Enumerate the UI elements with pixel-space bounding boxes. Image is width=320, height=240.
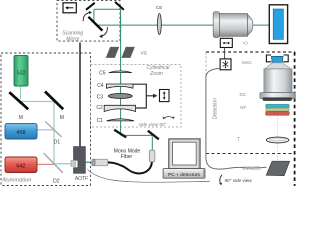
fold mirror lower-right	[148, 131, 159, 140]
svg-text:Mirror: Mirror	[66, 37, 79, 43]
sample vial body	[264, 69, 292, 93]
beam 458 to D1	[37, 129, 54, 131]
svg-text:NF: NF	[240, 105, 246, 110]
svg-text:IO: IO	[243, 40, 248, 45]
mirror M1	[9, 92, 28, 109]
svg-text:PC + detectors: PC + detectors	[168, 172, 200, 178]
scanning mirror dashed box	[57, 1, 120, 42]
laser 458	[5, 124, 37, 139]
filter stack khaki	[266, 108, 290, 111]
sample vial cap	[271, 56, 283, 62]
dichroic D2	[44, 153, 63, 173]
monitor	[169, 139, 200, 169]
alignment screen outer	[269, 5, 287, 44]
filter stack red	[266, 111, 290, 115]
sample holder clamp right	[283, 55, 288, 62]
illumination objective body	[220, 14, 248, 37]
beam 532 laser to mirror M1	[20, 86, 22, 100]
svg-text:Detection: Detection	[212, 98, 218, 119]
svg-text:458: 458	[16, 130, 25, 136]
svg-text:D2: D2	[53, 178, 60, 184]
sample vial shoulder	[265, 63, 292, 69]
svg-text:EMCCD: EMCCD	[242, 166, 261, 172]
detection dashed box top edge	[206, 51, 295, 53]
filter stack cyan	[266, 104, 290, 108]
beam M1 to M2	[20, 101, 55, 103]
sample vial base	[260, 93, 295, 99]
cylindrical zoom dashed box	[91, 65, 182, 128]
detection dashed box left edge	[205, 52, 207, 154]
beam scanning mirror to illumination objective	[96, 24, 214, 26]
svg-text:M: M	[60, 115, 64, 121]
svg-text:532: 532	[17, 71, 26, 77]
lens C3 (biconvex)	[108, 94, 132, 99]
fold mirror top-left	[86, 3, 95, 10]
beam fold mirror to fold mirror horizontal	[121, 134, 153, 136]
IO motion box	[220, 38, 232, 47]
PC + detectors bar	[163, 169, 205, 179]
illumination objective flange	[213, 12, 219, 38]
svg-text:side view 90°: side view 90°	[139, 122, 167, 127]
AOTF body	[74, 147, 86, 174]
cable AOTF to PC	[88, 170, 211, 183]
single mode fiber curve	[108, 162, 152, 174]
svg-text:AOTF: AOTF	[75, 176, 88, 182]
mirror M2	[45, 92, 63, 110]
beam objective to screen	[253, 24, 270, 26]
dotted detection axis	[277, 116, 279, 137]
illumination dashed box	[1, 53, 91, 186]
beam fold mirror down to scanning mirror	[93, 9, 95, 22]
svg-text:C3: C3	[97, 94, 104, 100]
label 90 side view	[220, 175, 222, 184]
svg-text:M: M	[19, 115, 23, 121]
fold mirror lower-left	[114, 130, 126, 138]
laser 532	[14, 55, 28, 86]
wire IO to MSC	[224, 48, 226, 59]
scanning mirror	[88, 17, 102, 31]
wire scanning box to AOTF	[79, 43, 81, 148]
alignment screen blue panel	[273, 9, 283, 39]
vertical-move icon box	[160, 90, 170, 102]
svg-text:642: 642	[16, 164, 25, 170]
intensity arrow box	[63, 3, 76, 13]
dichroic D1	[45, 122, 61, 138]
svg-text:C6: C6	[156, 5, 162, 10]
lens C4 (plano-concave)	[106, 84, 133, 88]
svg-text:VS: VS	[141, 51, 147, 56]
beam D2 to AOTF	[54, 163, 76, 165]
AOTF input tab	[71, 160, 76, 166]
lens C5	[109, 71, 132, 73]
detection dashed box bottom edge	[206, 153, 295, 155]
EMCCD chip	[266, 161, 289, 175]
svg-text:C5: C5	[99, 70, 106, 76]
detection dashed box right edge	[294, 52, 296, 186]
svg-text:T: T	[237, 137, 240, 143]
lens C1	[107, 119, 135, 121]
wire MSC down and to EMCCD	[206, 68, 267, 169]
sample holder clamp left	[266, 55, 271, 62]
variable slit VS left blade	[106, 47, 119, 58]
variable slit VS right blade	[121, 47, 134, 58]
svg-text:Illumination: Illumination	[2, 178, 31, 184]
svg-text:C4: C4	[97, 83, 104, 89]
beam vertical through cylindrical zoom and slit	[120, 9, 122, 133]
svg-text:MSC: MSC	[242, 60, 253, 65]
svg-text:C2: C2	[96, 105, 103, 111]
MSC motion box	[220, 59, 231, 70]
tube lens T	[266, 137, 289, 143]
fiber output ferrule (vertical)	[149, 150, 155, 162]
fold mirror top-right	[115, 2, 124, 10]
beam top horizontal between fold mirrors	[94, 8, 121, 10]
beam fiber exit up to fold mirror	[151, 137, 153, 151]
beam AOTF to fiber ferrule	[85, 161, 92, 163]
zoom bracket lines	[133, 84, 154, 108]
fiber coupler ferrule (horizontal)	[92, 159, 108, 166]
svg-text:90° side view: 90° side view	[225, 178, 253, 183]
laser 642	[5, 157, 37, 173]
lens C6	[158, 14, 162, 35]
beam M2 down through D1 D2	[53, 102, 55, 165]
svg-text:Fiber: Fiber	[121, 154, 133, 160]
svg-text:DC: DC	[239, 92, 246, 97]
rotation arc lower	[101, 27, 107, 36]
illumination objective nose	[248, 15, 253, 36]
lens C2 (plano-concave)	[104, 105, 135, 111]
svg-text:C1: C1	[97, 118, 104, 124]
rotation arc upper	[83, 12, 90, 21]
svg-text:D1: D1	[54, 140, 61, 146]
beam 642 to D2	[37, 163, 54, 165]
svg-text:Zoom: Zoom	[149, 71, 163, 77]
